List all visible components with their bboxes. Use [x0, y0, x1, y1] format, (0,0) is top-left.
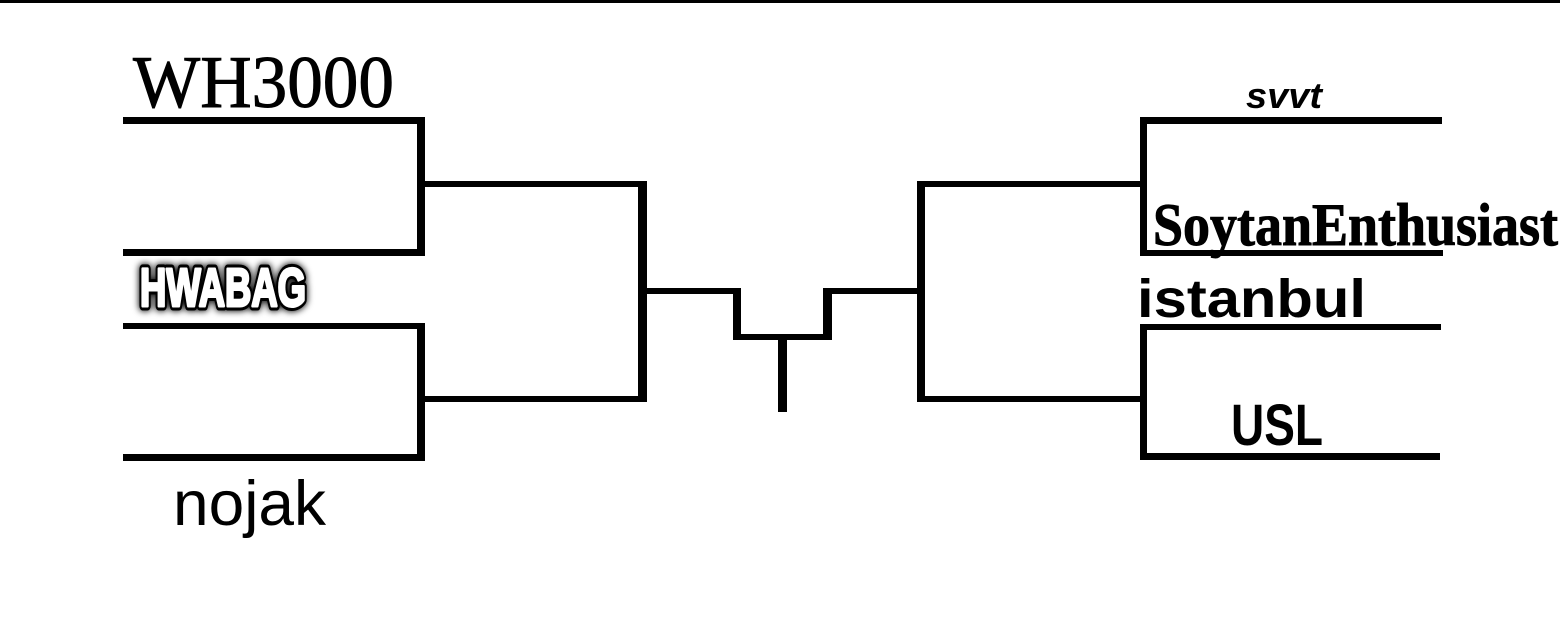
wire semifinal right bottom [917, 396, 1147, 402]
wire vertical V1 left round1 top [417, 117, 425, 256]
wire champion drop vertical [778, 334, 787, 412]
wire team line L3 [123, 323, 425, 329]
wire semifinal left vertical [638, 181, 647, 402]
svg-text:istanbul: istanbul [1137, 269, 1366, 329]
svg-text:nojak: nojak [173, 469, 327, 539]
wire team line L4 (nojak) [123, 454, 425, 461]
wire semifinal left top [417, 181, 647, 187]
wire vertical V2 left round1 bottom [417, 323, 425, 461]
wire semifinal right vertical [917, 181, 925, 402]
svg-text:svvt: svvt [1246, 75, 1324, 116]
svg-text:USL: USL [1231, 393, 1323, 458]
wire vertical V3 right round1 top [1140, 117, 1147, 256]
wire winner line right [823, 288, 917, 294]
svg-text:SoytanEnthusiast: SoytanEnthusiast [1153, 192, 1558, 258]
wire team line R1 (svvt) [1140, 117, 1442, 124]
wire team line R3 (istanbul) [1140, 324, 1441, 330]
svg-text:HWABAG: HWABAG [140, 258, 306, 318]
wire team line L2 [123, 249, 425, 256]
wire center low horizontal [733, 334, 832, 340]
svg-text:WH3000: WH3000 [133, 42, 394, 124]
wire center step right vertical [823, 288, 832, 340]
wire team line R4 (USL) [1140, 453, 1440, 460]
wire team line L1 (WH3000) [123, 117, 425, 124]
wire center step left vertical [733, 288, 741, 340]
wire winner line left [647, 288, 741, 294]
wire semifinal left bottom [417, 396, 647, 402]
wire vertical V4 right round1 bottom [1140, 324, 1147, 460]
wire team line R2 (SoytanEnthusiast) [1140, 250, 1443, 256]
top border line [0, 0, 1560, 3]
wire semifinal right top [917, 181, 1147, 187]
